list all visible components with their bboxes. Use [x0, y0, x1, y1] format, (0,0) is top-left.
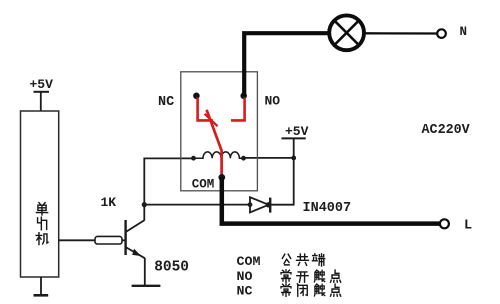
- node coil left: [191, 156, 196, 161]
- wire collector to relay coil left: [144, 158, 193, 220]
- svg-text:NO: NO: [237, 269, 253, 284]
- power +5V (MCU supply): [30, 77, 54, 111]
- junction node coil/+5V: [291, 156, 296, 161]
- wire MCU output to resistor: [59, 239, 95, 241]
- legend row COM 公共端: [237, 254, 325, 269]
- relay coil: [194, 152, 244, 158]
- wire diode cathode to +5V rail: [270, 158, 294, 205]
- contact NC (red): [193, 93, 213, 121]
- relay armature (red) with break cross: [205, 110, 222, 178]
- legend row NC 常闭触点: [237, 283, 341, 298]
- wire relay coil right to +5V junction: [244, 157, 294, 159]
- wire emitter to ground: [144, 258, 146, 285]
- svg-text:1K: 1K: [101, 195, 117, 210]
- svg-text:L: L: [464, 219, 472, 234]
- diode D1 IN4007: [248, 197, 271, 212]
- svg-text:8050: 8050: [154, 260, 189, 276]
- lamp LP1: [329, 15, 364, 50]
- relay K1 box: [181, 72, 258, 191]
- svg-text:COM: COM: [237, 254, 261, 269]
- MCU U1 (单片机): [21, 111, 59, 277]
- svg-text:IN4007: IN4007: [303, 201, 352, 216]
- contact NO (red): [231, 93, 247, 121]
- svg-text:NC: NC: [158, 95, 174, 110]
- node coil right: [241, 156, 246, 161]
- svg-text:COM: COM: [192, 178, 215, 192]
- legend row NO 常开触点: [237, 269, 341, 284]
- power +5V (relay supply): [282, 124, 309, 158]
- wire collector junction to diode anode: [144, 204, 250, 206]
- terminal L: [440, 219, 449, 228]
- terminal N: [437, 29, 446, 38]
- ground (emitter): [132, 285, 161, 287]
- transistor Q1 8050: [126, 220, 145, 258]
- junction node collector/diode: [142, 202, 147, 207]
- wire lamp to N terminal: [364, 32, 437, 35]
- wire resistor to base: [122, 239, 125, 241]
- resistor R1: [95, 236, 122, 244]
- svg-text:N: N: [460, 25, 468, 39]
- svg-text:NO: NO: [265, 93, 281, 108]
- svg-text:AC220V: AC220V: [422, 123, 471, 138]
- svg-text:NC: NC: [237, 283, 253, 298]
- wire NO contact to lamp (thick): [244, 33, 328, 96]
- ground (MCU): [34, 277, 49, 295]
- svg-text:+5V: +5V: [30, 77, 54, 92]
- node COM: [218, 174, 225, 181]
- wire COM to L terminal (thick): [222, 177, 440, 223]
- svg-text:+5V: +5V: [285, 124, 309, 139]
